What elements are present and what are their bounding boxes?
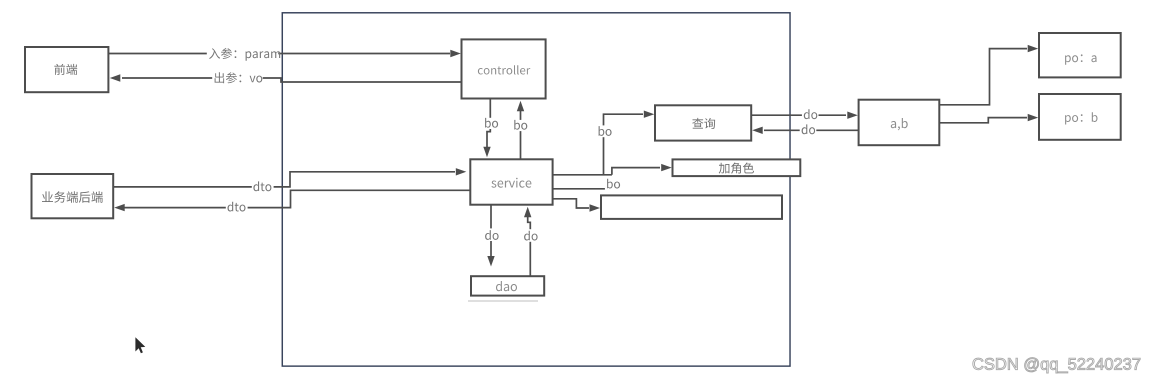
faint stub under dao: [468, 300, 538, 302]
container frame: [282, 13, 790, 366]
wire 业务端后端 to service (dto upper): [113, 172, 455, 187]
wire dao to service (do up): [528, 216, 531, 276]
wire service to dao (do down): [490, 205, 492, 257]
label backgrounds: [207, 47, 278, 60]
label po b: [1065, 112, 1097, 124]
box 业务端后端: [32, 174, 114, 218]
label controller: [478, 65, 530, 74]
label bo left: [485, 118, 498, 128]
box 查询: [655, 105, 751, 140]
label do top: [804, 109, 818, 119]
label a,b: [891, 118, 908, 130]
box a,b: [859, 100, 940, 146]
box controller: [462, 39, 546, 98]
label 业务端后端: [42, 191, 103, 202]
wire 查询 to a,b (do): [751, 114, 846, 116]
wire controller to 前端 (出参 vo): [122, 78, 462, 82]
label dto lower: [228, 202, 246, 212]
wire service to unnamed box: [553, 199, 589, 208]
box dao: [471, 276, 544, 295]
label dao: [496, 281, 517, 291]
label 加角色: [719, 163, 754, 174]
label bo stub: [607, 179, 620, 189]
wire a,b to po a: [939, 49, 1027, 105]
wire service to controller (bo up): [520, 111, 522, 160]
box 加角色: [673, 159, 801, 176]
wire service to 查询 (bo elbow): [553, 114, 643, 175]
wire controller to service (bo down): [487, 99, 490, 149]
mouse cursor: [135, 337, 145, 353]
label bo right: [514, 120, 527, 130]
label po a: [1065, 54, 1096, 64]
label 出参 vo: [215, 72, 263, 83]
wire service bo stub: [553, 188, 605, 190]
label bo elbow: [599, 126, 612, 136]
label service: [491, 178, 531, 188]
label do bottom: [802, 124, 816, 134]
label 前端: [54, 64, 77, 75]
box po b: [1039, 94, 1121, 140]
box po a: [1039, 33, 1121, 77]
label do right: [524, 231, 538, 241]
wire a,b to 查询 (do): [764, 129, 859, 131]
box unnamed: [601, 195, 782, 219]
box 前端: [25, 47, 108, 92]
wire service to 业务端后端 (dto lower): [122, 190, 470, 207]
wire a,b to po b: [939, 118, 1027, 123]
box service: [470, 159, 552, 204]
watermark CSDN: [973, 358, 1140, 373]
label do left: [485, 230, 499, 240]
wire branch to 加角色: [612, 168, 660, 175]
wire 前端 to controller (入参 param): [108, 53, 450, 55]
label dto upper: [253, 181, 271, 191]
label 查询: [692, 118, 715, 129]
label 入参 param: [209, 48, 280, 61]
